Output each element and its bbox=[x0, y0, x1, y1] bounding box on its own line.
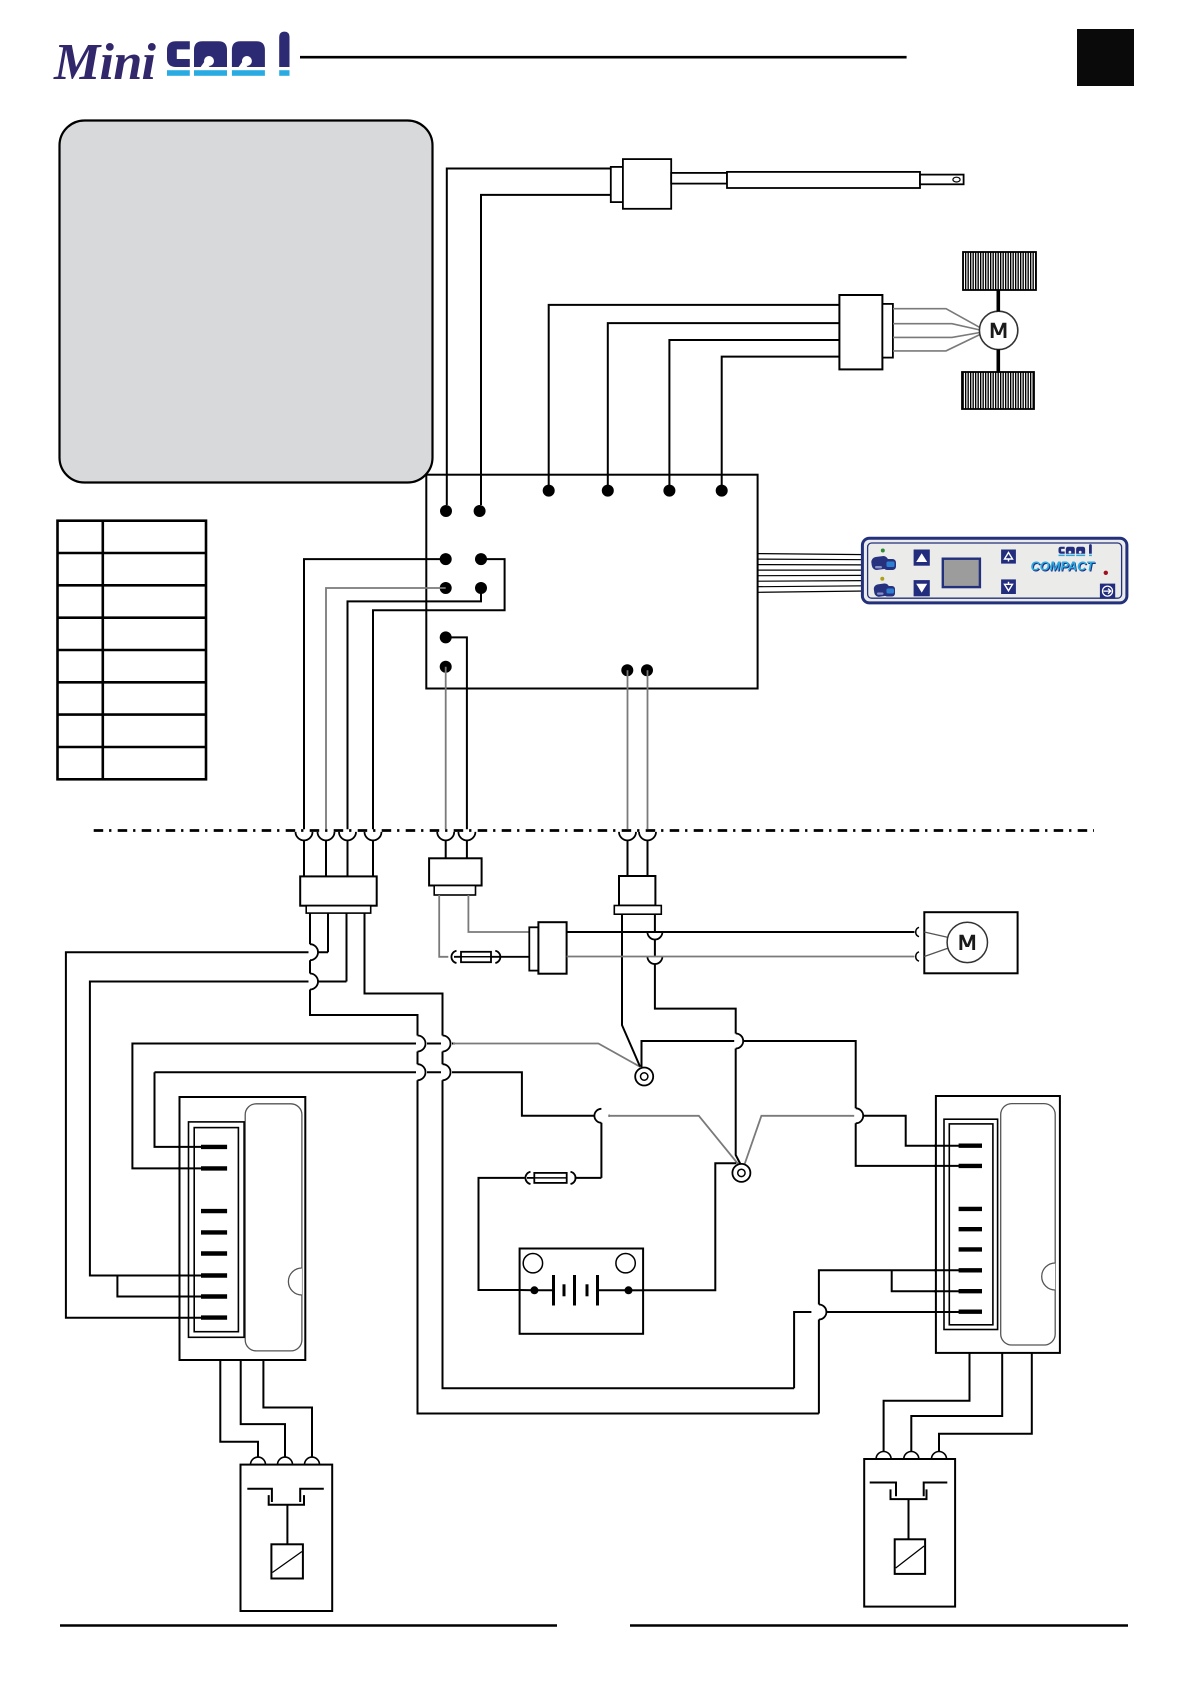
legend box bbox=[60, 121, 433, 483]
fan wheel lower bbox=[962, 372, 1034, 409]
wire bulkhead G to X3 bbox=[627, 840, 629, 876]
wire X3 pin L to node N1 bbox=[622, 914, 640, 1066]
wire bulkhead C to X1 bbox=[347, 840, 349, 876]
wire D gray segment to node N2 bbox=[608, 1116, 738, 1165]
wire fan motor feed 2 bbox=[608, 323, 840, 486]
terminal node N1 bbox=[635, 1068, 653, 1086]
wire hop W1 at wire C bbox=[418, 1036, 426, 1052]
U1 pin dot 14 bbox=[641, 664, 653, 676]
RB1 terminal bars bbox=[201, 1147, 227, 1318]
bulkhead pass connector D bbox=[365, 832, 382, 841]
logo cool wordmark bbox=[167, 32, 290, 76]
panel label COMPACT bbox=[1031, 559, 1096, 575]
RB2 terminal bars bbox=[959, 1146, 982, 1312]
footer rule left bbox=[60, 1624, 557, 1626]
wire X2 pin R to X4 bbox=[468, 895, 529, 932]
panel led yellow bbox=[880, 577, 884, 581]
U1 pin dot 3 bbox=[663, 485, 675, 497]
fan wheel upper bbox=[963, 252, 1036, 290]
header rule bbox=[300, 56, 907, 59]
U1 pin dot 9 bbox=[440, 582, 452, 594]
bulkhead pass connector H bbox=[639, 832, 656, 841]
wire battery positive to node N2 bbox=[632, 1163, 736, 1290]
wire bulkhead E to X2 bbox=[445, 840, 447, 858]
fan motor M1 bbox=[979, 311, 1017, 349]
panel led red bbox=[1104, 571, 1108, 575]
temperature sensor probe B1 bbox=[611, 159, 964, 209]
page tab black square bbox=[1077, 29, 1134, 86]
wire hop W4 at wire C bbox=[443, 1036, 451, 1052]
M2 lead 2 holder arc bbox=[916, 952, 919, 961]
wire hop X3R at node link bbox=[736, 1034, 744, 1049]
pump motor M2 bbox=[924, 912, 1017, 973]
wire hop X3R at motor lead 2 bbox=[647, 957, 662, 965]
footer rule right bbox=[630, 1624, 1128, 1626]
wire U1 to bulkhead C bbox=[348, 588, 482, 829]
connector X3 2-way bbox=[614, 876, 661, 914]
fuse F1 bbox=[451, 951, 529, 963]
U1 pin dot 7 bbox=[440, 553, 452, 565]
bulkhead pass connector G bbox=[619, 832, 636, 841]
wire hop F2 lead at wire D bbox=[594, 1109, 601, 1123]
wire hop W1 at wire B bbox=[310, 974, 318, 990]
wire fan motor feed 1 bbox=[549, 305, 840, 486]
wire bulkhead B to X1 bbox=[325, 840, 327, 876]
panel button temp up bbox=[1001, 550, 1016, 564]
wire RB2 pin1 out to relay K2 bbox=[884, 1353, 970, 1452]
svg-text:COMPACT: COMPACT bbox=[1031, 559, 1096, 574]
battery G1 bbox=[520, 1249, 644, 1334]
connector X1 4-way bbox=[300, 876, 377, 913]
wire W1 branch to K2 pin7 bbox=[892, 1270, 960, 1291]
bulkhead pass connector B bbox=[318, 832, 335, 841]
U1 pin dot 10 bbox=[475, 582, 487, 594]
wire bulkhead A to X1 bbox=[303, 840, 305, 876]
wire C gray segment to node N1 bbox=[453, 1044, 641, 1068]
panel button down bbox=[914, 580, 930, 596]
wire RB2 pin2 out to relay K2 bbox=[911, 1353, 1002, 1452]
legend table bbox=[58, 521, 207, 780]
panel icon blower 1 bbox=[871, 555, 896, 570]
control unit U1 box bbox=[426, 475, 757, 689]
wire bulkhead F to X2 bbox=[466, 840, 468, 858]
U1 pin dot 2 bbox=[602, 485, 614, 497]
wire RB1 pin1 out to relay K1 bbox=[220, 1360, 258, 1457]
wire A X1 pin2 to relay block left pin8 bbox=[66, 913, 328, 1318]
U1 pin dot 5 bbox=[440, 505, 452, 517]
wire node N2 to relay block right pin1 bbox=[745, 1116, 855, 1165]
wire bulkhead D to X1 bbox=[372, 840, 374, 876]
bulkhead pass connector F bbox=[458, 832, 475, 841]
wire W1 X1 pin1 run bbox=[310, 913, 960, 1413]
control panel P1 bbox=[862, 538, 1127, 603]
wire B X1 pin3 to relay block left pin6 bbox=[90, 913, 347, 1275]
bulkhead pass connector A bbox=[296, 832, 313, 841]
wire RB1 pin2 out to relay K1 bbox=[241, 1360, 285, 1457]
logo Mini script text bbox=[53, 34, 157, 91]
wire X4 to M2 lead 2 bbox=[567, 956, 915, 958]
panel button temp down bbox=[1001, 579, 1016, 594]
wire hop W1 at wire A bbox=[310, 944, 318, 960]
wire entries RB2 bbox=[934, 1146, 960, 1312]
fan shaft upper bbox=[996, 290, 1000, 311]
wire W4 X1 pin4 run bbox=[365, 913, 961, 1388]
U1 pin dot 1 bbox=[543, 485, 555, 497]
svg-text:Mini: Mini bbox=[53, 34, 157, 91]
wire X4 to M2 lead 1 bbox=[567, 931, 915, 933]
fan shaft lower bbox=[996, 349, 1000, 372]
wire U1 to bulkhead G bbox=[627, 670, 629, 829]
wire hop W1 at wire W4 bbox=[819, 1305, 827, 1320]
wire motor leads bbox=[893, 309, 980, 351]
wire hop X3R at motor lead 1 bbox=[647, 932, 662, 940]
relay K2 bbox=[864, 1452, 955, 1607]
U1 pin dot 11 bbox=[440, 631, 452, 643]
wire fuse F2 right lead to wire D bbox=[575, 1123, 602, 1178]
relay block left RB1 bbox=[180, 1097, 306, 1360]
U1 pin dot 6 bbox=[474, 505, 486, 517]
wire B branch to relay block left pin7 bbox=[117, 1276, 203, 1297]
wire U1 to bulkhead E bbox=[446, 637, 467, 829]
panel icon blower 2 bbox=[873, 583, 895, 598]
wire C relay block left pin2 to node N1 bbox=[132, 1044, 455, 1169]
M2 lead 1 holder arc bbox=[916, 927, 919, 936]
wire X2 pin L to fuse F1 bbox=[439, 895, 448, 957]
relay block right RB2 bbox=[936, 1096, 1060, 1353]
wire hop W4 at wire D bbox=[443, 1064, 451, 1080]
wire entries RB1 bbox=[178, 1147, 203, 1318]
wire node N1 to relay block right pin2 bbox=[642, 1041, 961, 1166]
U1 pin dot 13 bbox=[621, 664, 633, 676]
wire fan motor feed 4 bbox=[722, 357, 840, 486]
wire U1 to bulkhead D bbox=[373, 559, 505, 829]
ribbon cable to panel bbox=[758, 554, 866, 593]
wire fuse F2 left lead to battery bbox=[479, 1178, 531, 1290]
wire hop W1 at wire D bbox=[418, 1064, 426, 1080]
wire U1 to bulkhead H bbox=[647, 670, 649, 829]
inline connector X4 bbox=[529, 922, 566, 974]
U1 pin dot 12 bbox=[440, 661, 452, 673]
wire RB2 pin3 out to relay K2 bbox=[939, 1353, 1032, 1452]
bulkhead pass connector E bbox=[437, 832, 454, 841]
wire U1 to bulkhead B bbox=[326, 588, 446, 829]
terminal node N2 bbox=[732, 1164, 750, 1182]
wire RB1 pin3 out to relay K1 bbox=[263, 1360, 312, 1457]
wire sensor lead 1 bbox=[447, 169, 611, 506]
wire fan motor feed 3 bbox=[669, 340, 839, 486]
connector X5 evaporator fan bbox=[839, 295, 893, 369]
relay K1 bbox=[241, 1457, 333, 1611]
panel button enter bbox=[1100, 584, 1115, 599]
wire D relay block left pin1 run bbox=[155, 1072, 611, 1147]
wire hop N1 link at N2 wire bbox=[856, 1108, 864, 1123]
wire U1 to bulkhead A bbox=[304, 559, 446, 829]
bulkhead dash-dot line bbox=[94, 829, 1094, 832]
U1 pin dot 8 bbox=[475, 553, 487, 565]
panel led green bbox=[881, 549, 885, 553]
fuse F2 bbox=[525, 1172, 575, 1184]
wire sensor lead 2 bbox=[481, 195, 611, 505]
connector X2 2-way bbox=[429, 858, 482, 895]
panel display bbox=[943, 559, 980, 587]
U1 pin dot 4 bbox=[716, 485, 728, 497]
panel logo cool bbox=[1059, 544, 1092, 556]
wire bulkhead H to X3 bbox=[647, 840, 649, 876]
wire X3 pin R to node N2 bbox=[655, 914, 741, 1164]
bulkhead pass connector C bbox=[339, 832, 356, 841]
wire N2 right dark segment bbox=[864, 1116, 961, 1146]
panel button up bbox=[914, 550, 930, 566]
wire U1 to bulkhead F bbox=[445, 667, 447, 830]
